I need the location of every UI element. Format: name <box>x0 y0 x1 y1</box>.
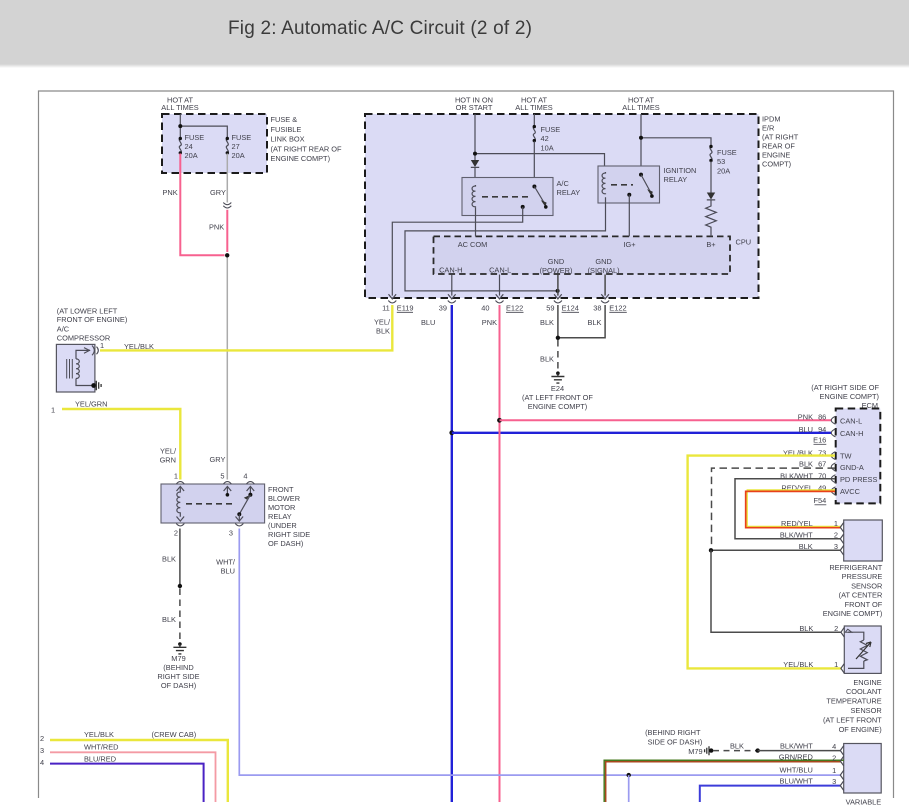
svg-text:M79: M79 <box>688 747 702 756</box>
wire 2 YEL/BLK crew cab <box>40 730 228 802</box>
wire 1 YEL/GRN off-page <box>51 400 180 480</box>
svg-text:PNK: PNK <box>798 412 813 421</box>
svg-text:(AT LEFT FRONT: (AT LEFT FRONT <box>823 715 882 724</box>
svg-text:2: 2 <box>832 754 836 763</box>
svg-text:VARIABLE: VARIABLE <box>846 798 882 807</box>
wire GRY down to blower relay pin 5 <box>210 258 228 480</box>
fuse 24 20A <box>179 133 205 160</box>
svg-text:IGNITION: IGNITION <box>664 166 697 175</box>
svg-text:GND: GND <box>595 257 611 266</box>
svg-text:20A: 20A <box>717 166 730 175</box>
wire BLU/WHT to blower pin 3 <box>700 777 844 803</box>
compressor clutch coil <box>76 359 79 379</box>
svg-text:FUSE: FUSE <box>185 133 205 142</box>
ECM pin 67 GND-A <box>799 460 835 471</box>
svg-text:10A: 10A <box>541 143 554 152</box>
svg-text:GND: GND <box>548 257 564 266</box>
svg-text:E16: E16 <box>813 436 826 445</box>
svg-text:3: 3 <box>40 746 44 755</box>
svg-text:1: 1 <box>51 406 55 415</box>
svg-text:FUSE: FUSE <box>232 133 252 142</box>
svg-text:1: 1 <box>834 660 838 669</box>
wire PNK below connector <box>209 210 227 252</box>
svg-text:RIGHT SIDE: RIGHT SIDE <box>157 672 199 681</box>
svg-text:RELAY: RELAY <box>557 188 581 197</box>
svg-text:3: 3 <box>229 529 233 538</box>
svg-text:3: 3 <box>832 777 836 786</box>
svg-text:RELAY: RELAY <box>664 175 688 184</box>
svg-text:E122: E122 <box>609 304 626 313</box>
wire WHT/BLU label pin 1 <box>780 765 844 780</box>
svg-text:REAR OF: REAR OF <box>762 142 795 151</box>
svg-text:24: 24 <box>185 142 193 151</box>
svg-text:OR START: OR START <box>456 103 493 112</box>
svg-text:1: 1 <box>174 472 178 481</box>
wire hot-at-all-times to fuse 42 <box>515 96 552 127</box>
svg-text:YEL/BLK: YEL/BLK <box>783 660 813 669</box>
wire 3 WHT/RED <box>40 743 216 803</box>
svg-text:ALL TIMES: ALL TIMES <box>515 103 552 112</box>
wire BLU to ECM CAN-H <box>449 430 831 435</box>
ignition relay switch <box>627 173 653 198</box>
fuse 53 20A <box>709 145 736 176</box>
svg-text:MOTOR: MOTOR <box>268 503 295 512</box>
svg-text:11: 11 <box>382 304 390 313</box>
wire fuse53 down <box>710 161 712 193</box>
svg-text:BLK: BLK <box>799 624 813 633</box>
sensor pin 1 RED/YEL <box>781 519 844 532</box>
svg-text:4: 4 <box>832 742 836 751</box>
svg-text:1: 1 <box>834 519 838 528</box>
svg-text:20A: 20A <box>185 151 198 160</box>
svg-text:RED/YEL: RED/YEL <box>781 519 813 528</box>
wire A/C relay coil to AC COM <box>475 207 477 236</box>
svg-text:FUSE: FUSE <box>717 148 737 157</box>
ECM pin 70 PD PRESS <box>780 471 835 483</box>
wire hot-in-on-or-start feed <box>455 96 605 173</box>
svg-text:CAN-L: CAN-L <box>840 416 862 425</box>
svg-text:(BEHIND RIGHT: (BEHIND RIGHT <box>645 728 701 737</box>
pin 40 connector E122 <box>481 294 523 312</box>
svg-text:53: 53 <box>717 157 725 166</box>
svg-text:BLK/WHT: BLK/WHT <box>780 742 813 751</box>
svg-text:YEL/: YEL/ <box>374 318 391 327</box>
wire BLK/WHT to blower pin 4 <box>758 742 844 756</box>
svg-text:BLK/WHT: BLK/WHT <box>780 530 813 539</box>
svg-text:YEL/BLK: YEL/BLK <box>84 730 114 739</box>
wire hot-at-all-times third feed <box>622 96 711 175</box>
svg-text:SENSOR: SENSOR <box>850 706 881 715</box>
svg-text:CAN-H: CAN-H <box>439 266 462 275</box>
inline connector on GRY/PNK wire <box>223 203 231 209</box>
svg-text:ENGINE: ENGINE <box>853 678 881 687</box>
svg-text:39: 39 <box>439 304 447 313</box>
svg-text:BLK: BLK <box>799 460 813 469</box>
svg-text:2: 2 <box>40 734 44 743</box>
svg-text:(CREW CAB): (CREW CAB) <box>152 730 197 739</box>
svg-text:ENGINE: ENGINE <box>762 151 790 160</box>
svg-text:M79: M79 <box>171 654 185 663</box>
ECT thermistor <box>848 632 871 668</box>
svg-text:OF DASH): OF DASH) <box>161 681 196 690</box>
ignition relay dashed link <box>611 184 633 186</box>
blower relay pin 3 connector <box>229 517 243 538</box>
svg-text:4: 4 <box>40 758 44 767</box>
diode D1 <box>471 160 479 185</box>
svg-text:TW: TW <box>840 452 852 461</box>
wire 4 BLU/RED <box>40 755 204 803</box>
compressor case ground <box>76 379 101 391</box>
sensor pin 3 BLK <box>709 542 844 555</box>
svg-text:(AT RIGHT REAR OF: (AT RIGHT REAR OF <box>271 144 343 153</box>
svg-text:3: 3 <box>834 542 838 551</box>
svg-text:CPU: CPU <box>736 238 752 247</box>
svg-text:RIGHT SIDE: RIGHT SIDE <box>268 530 310 539</box>
fuse 27 20A <box>226 133 252 160</box>
pin 38 connector E122 <box>593 294 627 312</box>
ignition relay coil <box>602 172 605 194</box>
svg-text:BLK: BLK <box>588 318 602 327</box>
svg-text:IPDM: IPDM <box>762 115 780 124</box>
svg-text:67: 67 <box>818 460 826 469</box>
blower relay pin 4 connector <box>243 472 254 492</box>
blower relay dashed link <box>186 503 234 505</box>
wire BLK dashed to E24 <box>540 340 558 371</box>
svg-text:RELAY: RELAY <box>268 512 292 521</box>
svg-text:BLU: BLU <box>221 567 235 576</box>
wire BLK/WHT PD PRESS to sensor <box>735 479 841 539</box>
svg-text:ENGINE COMPT): ENGINE COMPT) <box>823 609 883 618</box>
svg-text:YEL/: YEL/ <box>160 447 177 456</box>
svg-text:BLK: BLK <box>376 327 390 336</box>
wire feed hot-at-all-times <box>178 114 227 138</box>
svg-text:BLU/WHT: BLU/WHT <box>780 777 814 786</box>
wire PNK from fuse 24 <box>163 154 225 256</box>
ECM box <box>811 383 880 503</box>
pin 59 connector E124 <box>546 294 579 312</box>
blower relay pin5 stub <box>226 487 230 497</box>
blower relay switch <box>237 487 252 520</box>
svg-text:OF ENGINE): OF ENGINE) <box>839 725 882 734</box>
blower relay coil <box>177 487 180 517</box>
connector F54 <box>814 496 827 505</box>
wire PNK to ECM CAN-L <box>497 418 831 423</box>
svg-text:SENSOR: SENSOR <box>851 581 882 590</box>
svg-text:2: 2 <box>834 624 838 633</box>
wire BLK blower pin 2 <box>162 529 182 589</box>
svg-text:(AT LOWER LEFT: (AT LOWER LEFT <box>57 307 118 316</box>
wire BLU CAN-H <box>421 305 452 802</box>
wire ignition relay contact to IG+ <box>628 195 630 237</box>
sensor pin 2 BLK/WHT <box>780 530 844 543</box>
fuse 42 10A <box>533 125 561 152</box>
svg-text:FRONT OF: FRONT OF <box>845 600 883 609</box>
svg-text:WHT/: WHT/ <box>216 558 236 567</box>
svg-text:PNK: PNK <box>482 318 497 327</box>
wire fuse42 to A/C relay switch <box>533 141 535 186</box>
compressor pin 1 wire <box>76 341 104 359</box>
wire BLK dashed M79 to junction <box>713 742 760 753</box>
svg-text:94: 94 <box>818 425 826 434</box>
svg-text:F54: F54 <box>814 496 827 505</box>
svg-text:BLU: BLU <box>421 318 435 327</box>
svg-text:86: 86 <box>818 412 826 421</box>
svg-text:38: 38 <box>593 304 601 313</box>
svg-text:ENGINE COMPT): ENGINE COMPT) <box>271 154 331 163</box>
engine coolant temperature sensor <box>823 626 882 734</box>
fuse & fusible link box <box>161 96 342 174</box>
svg-text:(AT RIGHT: (AT RIGHT <box>762 133 799 142</box>
svg-text:CAN-H: CAN-H <box>840 429 863 438</box>
front blower motor relay K3 <box>161 484 310 548</box>
svg-text:GRY: GRY <box>210 455 226 464</box>
svg-text:(AT RIGHT SIDE OF: (AT RIGHT SIDE OF <box>811 383 879 392</box>
svg-text:E24: E24 <box>551 384 564 393</box>
wire BLK to ECT pin 2 <box>711 550 841 632</box>
wire BLK pin 38 ground <box>556 305 605 340</box>
svg-text:(AT LEFT FRONT OF: (AT LEFT FRONT OF <box>522 393 593 402</box>
svg-text:PNK: PNK <box>163 188 178 197</box>
svg-text:1: 1 <box>100 341 104 350</box>
svg-text:(SIGNAL): (SIGNAL) <box>588 266 620 275</box>
blower relay pin 5 connector <box>220 472 231 492</box>
ECM pin 49 AVCC <box>781 483 835 495</box>
svg-text:1: 1 <box>832 766 836 775</box>
A/C relay K1 <box>462 178 580 216</box>
svg-text:FUSIBLE: FUSIBLE <box>271 125 302 134</box>
svg-text:AC COM: AC COM <box>458 240 488 249</box>
ground M79 <box>157 642 199 690</box>
svg-text:GRY: GRY <box>210 188 226 197</box>
resistor R1 <box>706 204 717 237</box>
refrigerant pressure sensor <box>823 520 883 618</box>
svg-text:WHT/BLU: WHT/BLU <box>780 765 813 774</box>
svg-text:27: 27 <box>232 142 240 151</box>
ECM pin 94 CAN-H <box>799 425 836 437</box>
svg-text:SIDE OF DASH): SIDE OF DASH) <box>648 738 703 747</box>
A/C compressor <box>56 307 127 393</box>
svg-text:GND-A: GND-A <box>840 463 864 472</box>
wire PNK CAN-L <box>482 305 500 802</box>
wire ignition relay coil to GND(POWER) net <box>405 197 606 293</box>
A/C relay coil <box>472 185 475 207</box>
node junction PNK <box>225 253 229 257</box>
IPDM E/R box <box>365 114 799 298</box>
svg-text:COMPT): COMPT) <box>762 160 791 169</box>
wire RED/YEL AVCC to sensor <box>746 490 841 528</box>
svg-text:BLK: BLK <box>730 742 744 751</box>
svg-text:OF DASH): OF DASH) <box>268 539 303 548</box>
svg-text:PNK: PNK <box>209 223 224 232</box>
svg-text:YEL/GRN: YEL/GRN <box>75 400 107 409</box>
wire BLK dashed GND-A <box>712 468 836 548</box>
svg-text:TEMPERATURE: TEMPERATURE <box>826 697 881 706</box>
svg-text:5: 5 <box>220 472 224 481</box>
CPU box <box>434 236 752 274</box>
pin 11 connector E119 <box>382 294 413 312</box>
svg-text:BLK: BLK <box>540 355 554 364</box>
blower relay pin 1 connector <box>174 472 184 492</box>
svg-text:42: 42 <box>541 134 549 143</box>
wire A/C relay contact to pin 11 <box>392 207 522 296</box>
svg-text:E/R: E/R <box>762 124 774 133</box>
svg-text:BLK: BLK <box>799 542 813 551</box>
svg-text:59: 59 <box>546 304 554 313</box>
wire CPU GND(POWER) to pin 59 <box>557 275 559 296</box>
svg-text:2: 2 <box>174 529 178 538</box>
svg-text:COOLANT: COOLANT <box>846 687 882 696</box>
svg-text:40: 40 <box>481 304 489 313</box>
ECT pin 2 BLK <box>799 624 851 637</box>
wire GRN/RED to blower pin 2 <box>604 753 844 803</box>
wire GRY from fuse 27 <box>210 154 227 203</box>
svg-text:20A: 20A <box>232 151 245 160</box>
svg-text:ENGINE COMPT): ENGINE COMPT) <box>528 402 588 411</box>
svg-text:LINK BOX: LINK BOX <box>271 135 305 144</box>
svg-text:ALL TIMES: ALL TIMES <box>161 103 198 112</box>
svg-text:FRONT OF ENGINE): FRONT OF ENGINE) <box>57 315 128 324</box>
svg-text:IG+: IG+ <box>623 240 635 249</box>
svg-text:ENGINE COMPT): ENGINE COMPT) <box>819 392 879 401</box>
svg-text:FUSE: FUSE <box>541 125 561 134</box>
svg-text:BLK: BLK <box>162 555 176 564</box>
svg-text:GRN/RED: GRN/RED <box>779 753 813 762</box>
ECM pin 86 CAN-L <box>798 412 836 424</box>
svg-text:BLOWER: BLOWER <box>268 494 300 503</box>
ground E24 <box>522 371 593 410</box>
svg-text:E124: E124 <box>562 304 579 313</box>
node junction WHT/BLU <box>627 773 631 802</box>
svg-text:WHT/RED: WHT/RED <box>84 743 119 752</box>
ECT pin 1 YEL/BLK <box>783 660 844 673</box>
svg-text:2: 2 <box>834 530 838 539</box>
ground M79 right <box>645 728 713 756</box>
svg-text:BLU/RED: BLU/RED <box>84 755 116 764</box>
wire CPU CAN-L to pin 40 <box>499 275 501 296</box>
svg-text:CAN-L: CAN-L <box>489 266 511 275</box>
svg-text:E122: E122 <box>506 304 523 313</box>
compressor clutch plates <box>67 359 73 379</box>
wire CPU GND(SIGNAL) to pin 38 <box>604 275 606 296</box>
wire BLK dashed to M79 <box>162 589 180 642</box>
A/C relay switch <box>521 185 548 209</box>
svg-text:PRESSURE: PRESSURE <box>842 572 883 581</box>
wire YEL/BLK ECT to ECM TW <box>688 456 841 669</box>
svg-text:B+: B+ <box>706 240 715 249</box>
variable blower control module <box>844 744 882 807</box>
svg-text:PD PRESS: PD PRESS <box>840 475 877 484</box>
wire BLK pin 59 ground <box>540 305 558 338</box>
svg-text:(AT CENTER: (AT CENTER <box>839 591 883 600</box>
connector E16 <box>813 436 826 445</box>
svg-text:E119: E119 <box>397 304 414 313</box>
svg-text:YEL/BLK: YEL/BLK <box>124 342 154 351</box>
svg-text:GRN: GRN <box>160 456 176 465</box>
wire YEL/BLK pin11 to compressor <box>100 305 392 351</box>
ignition relay K2 <box>598 166 696 203</box>
svg-text:REFRIGERANT: REFRIGERANT <box>829 563 882 572</box>
svg-text:A/C: A/C <box>557 179 570 188</box>
diode D2 <box>707 193 715 204</box>
pin 39 connector <box>439 294 456 312</box>
svg-text:(UNDER: (UNDER <box>268 521 297 530</box>
svg-text:A/C: A/C <box>57 325 70 334</box>
svg-text:BLK: BLK <box>540 318 554 327</box>
svg-text:(POWER): (POWER) <box>540 266 573 275</box>
svg-text:BLK: BLK <box>162 615 176 624</box>
svg-text:ALL TIMES: ALL TIMES <box>622 103 659 112</box>
A/C relay dashed link <box>482 196 532 198</box>
ECM pin 73 TW <box>783 448 836 459</box>
svg-text:(BEHIND: (BEHIND <box>163 663 193 672</box>
svg-text:FRONT: FRONT <box>268 485 294 494</box>
svg-text:BLU: BLU <box>799 425 813 434</box>
svg-text:4: 4 <box>243 472 247 481</box>
svg-text:AVCC: AVCC <box>840 487 861 496</box>
wire CPU CAN-H to pin 39 <box>451 275 453 296</box>
wire WHT/BLU blower pin 3 to variable blower <box>216 529 841 776</box>
blower relay pin 2 connector <box>174 517 184 538</box>
svg-text:FUSE &: FUSE & <box>271 115 298 124</box>
